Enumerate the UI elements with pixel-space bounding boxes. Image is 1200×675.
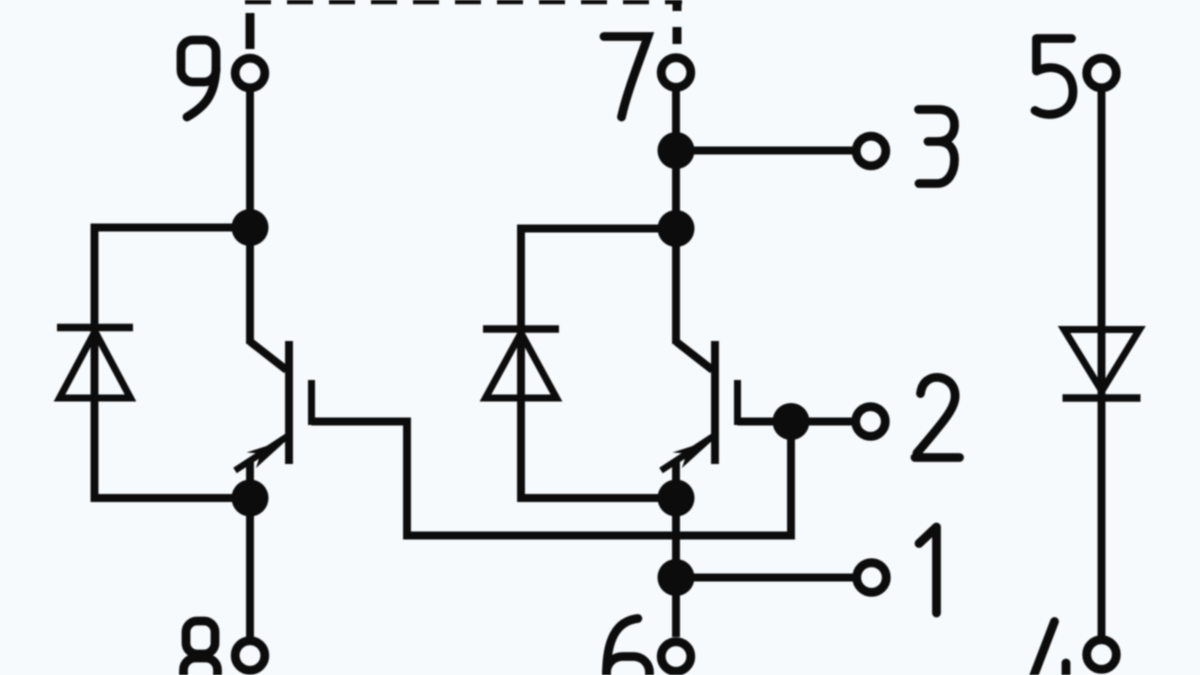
transistor T1 collector diagonal [250, 342, 287, 371]
terminal pin 9 [235, 58, 265, 88]
diode D3 triangle [1064, 330, 1140, 392]
transistor T1 emitter arrow [247, 439, 289, 468]
dashed external bus line (top) [245, 0, 682, 4]
transistor T2 collector diagonal [676, 342, 713, 371]
label 3 [919, 110, 955, 184]
wire: collector of T1 from pin 9 [246, 90, 254, 344]
terminal pin 5 [1087, 58, 1117, 88]
label 9 [181, 40, 216, 117]
label 5 [1035, 39, 1073, 115]
node: gate junction to pin 2 [773, 403, 810, 440]
node: emitter junction E2 [658, 480, 695, 517]
wire: T2 emitter stub [672, 460, 680, 498]
transistor T2 emitter diagonal [661, 435, 716, 471]
wire: emitter of T1 down to pin 8 [246, 498, 254, 637]
dashed lead above pin 9 [246, 13, 255, 49]
wire: to pin 3 [676, 147, 854, 155]
node: collector junction C1 [232, 209, 269, 246]
wire: D1 diode branch loop (left) [95, 228, 251, 499]
transistor T2 emitter arrow [673, 439, 715, 468]
terminal pin 3 [856, 136, 886, 166]
node: collector junction C2 [658, 210, 695, 247]
transistor T1 body bar [285, 341, 293, 464]
wire: D2 diode branch loop (middle) [521, 229, 676, 499]
label 2 [915, 377, 960, 457]
diode D1 cathode bar [57, 324, 133, 332]
terminal pin 8 [235, 641, 265, 671]
terminal pin 4 [1087, 640, 1117, 670]
terminal pin 2 [856, 407, 886, 437]
terminal pin 6 [661, 642, 691, 672]
wire: collector of T2 from pin 7 [672, 90, 680, 344]
terminal pin 1 [857, 563, 887, 593]
wire: right diode branch pin 5 to pin 4 [1098, 90, 1106, 636]
dashed lead above pin 7 [673, 0, 682, 44]
label 1 [919, 527, 937, 613]
node: junction to pin 3 [658, 132, 695, 169]
node: junction to pin 1 [658, 559, 695, 596]
wire: gate bus connecting T1 and T2 gates [312, 422, 792, 536]
wire: T1 emitter stub [246, 460, 254, 498]
transistor T2 gate bar [734, 380, 741, 425]
transistor T1 emitter diagonal [235, 435, 290, 471]
diode D1 triangle [60, 332, 131, 399]
wire: emitter of T2 down to pin 6 [672, 498, 680, 637]
diode D2 triangle [486, 333, 557, 398]
diode D3 cathode bar [1063, 394, 1141, 402]
terminal pin 7 [661, 58, 691, 88]
node: emitter junction E1 [232, 480, 269, 517]
transistor T1 gate bar [308, 380, 315, 425]
label 6 [607, 619, 650, 675]
label 7 [604, 37, 648, 118]
wire: to pin 1 [676, 574, 854, 582]
label 8 [184, 621, 218, 675]
label 4 [1032, 622, 1067, 675]
wire: to pin 2 [791, 418, 853, 426]
transistor T2 body bar [711, 341, 719, 464]
wire: T2 gate lead [738, 418, 792, 426]
diode D2 cathode bar [483, 325, 559, 333]
